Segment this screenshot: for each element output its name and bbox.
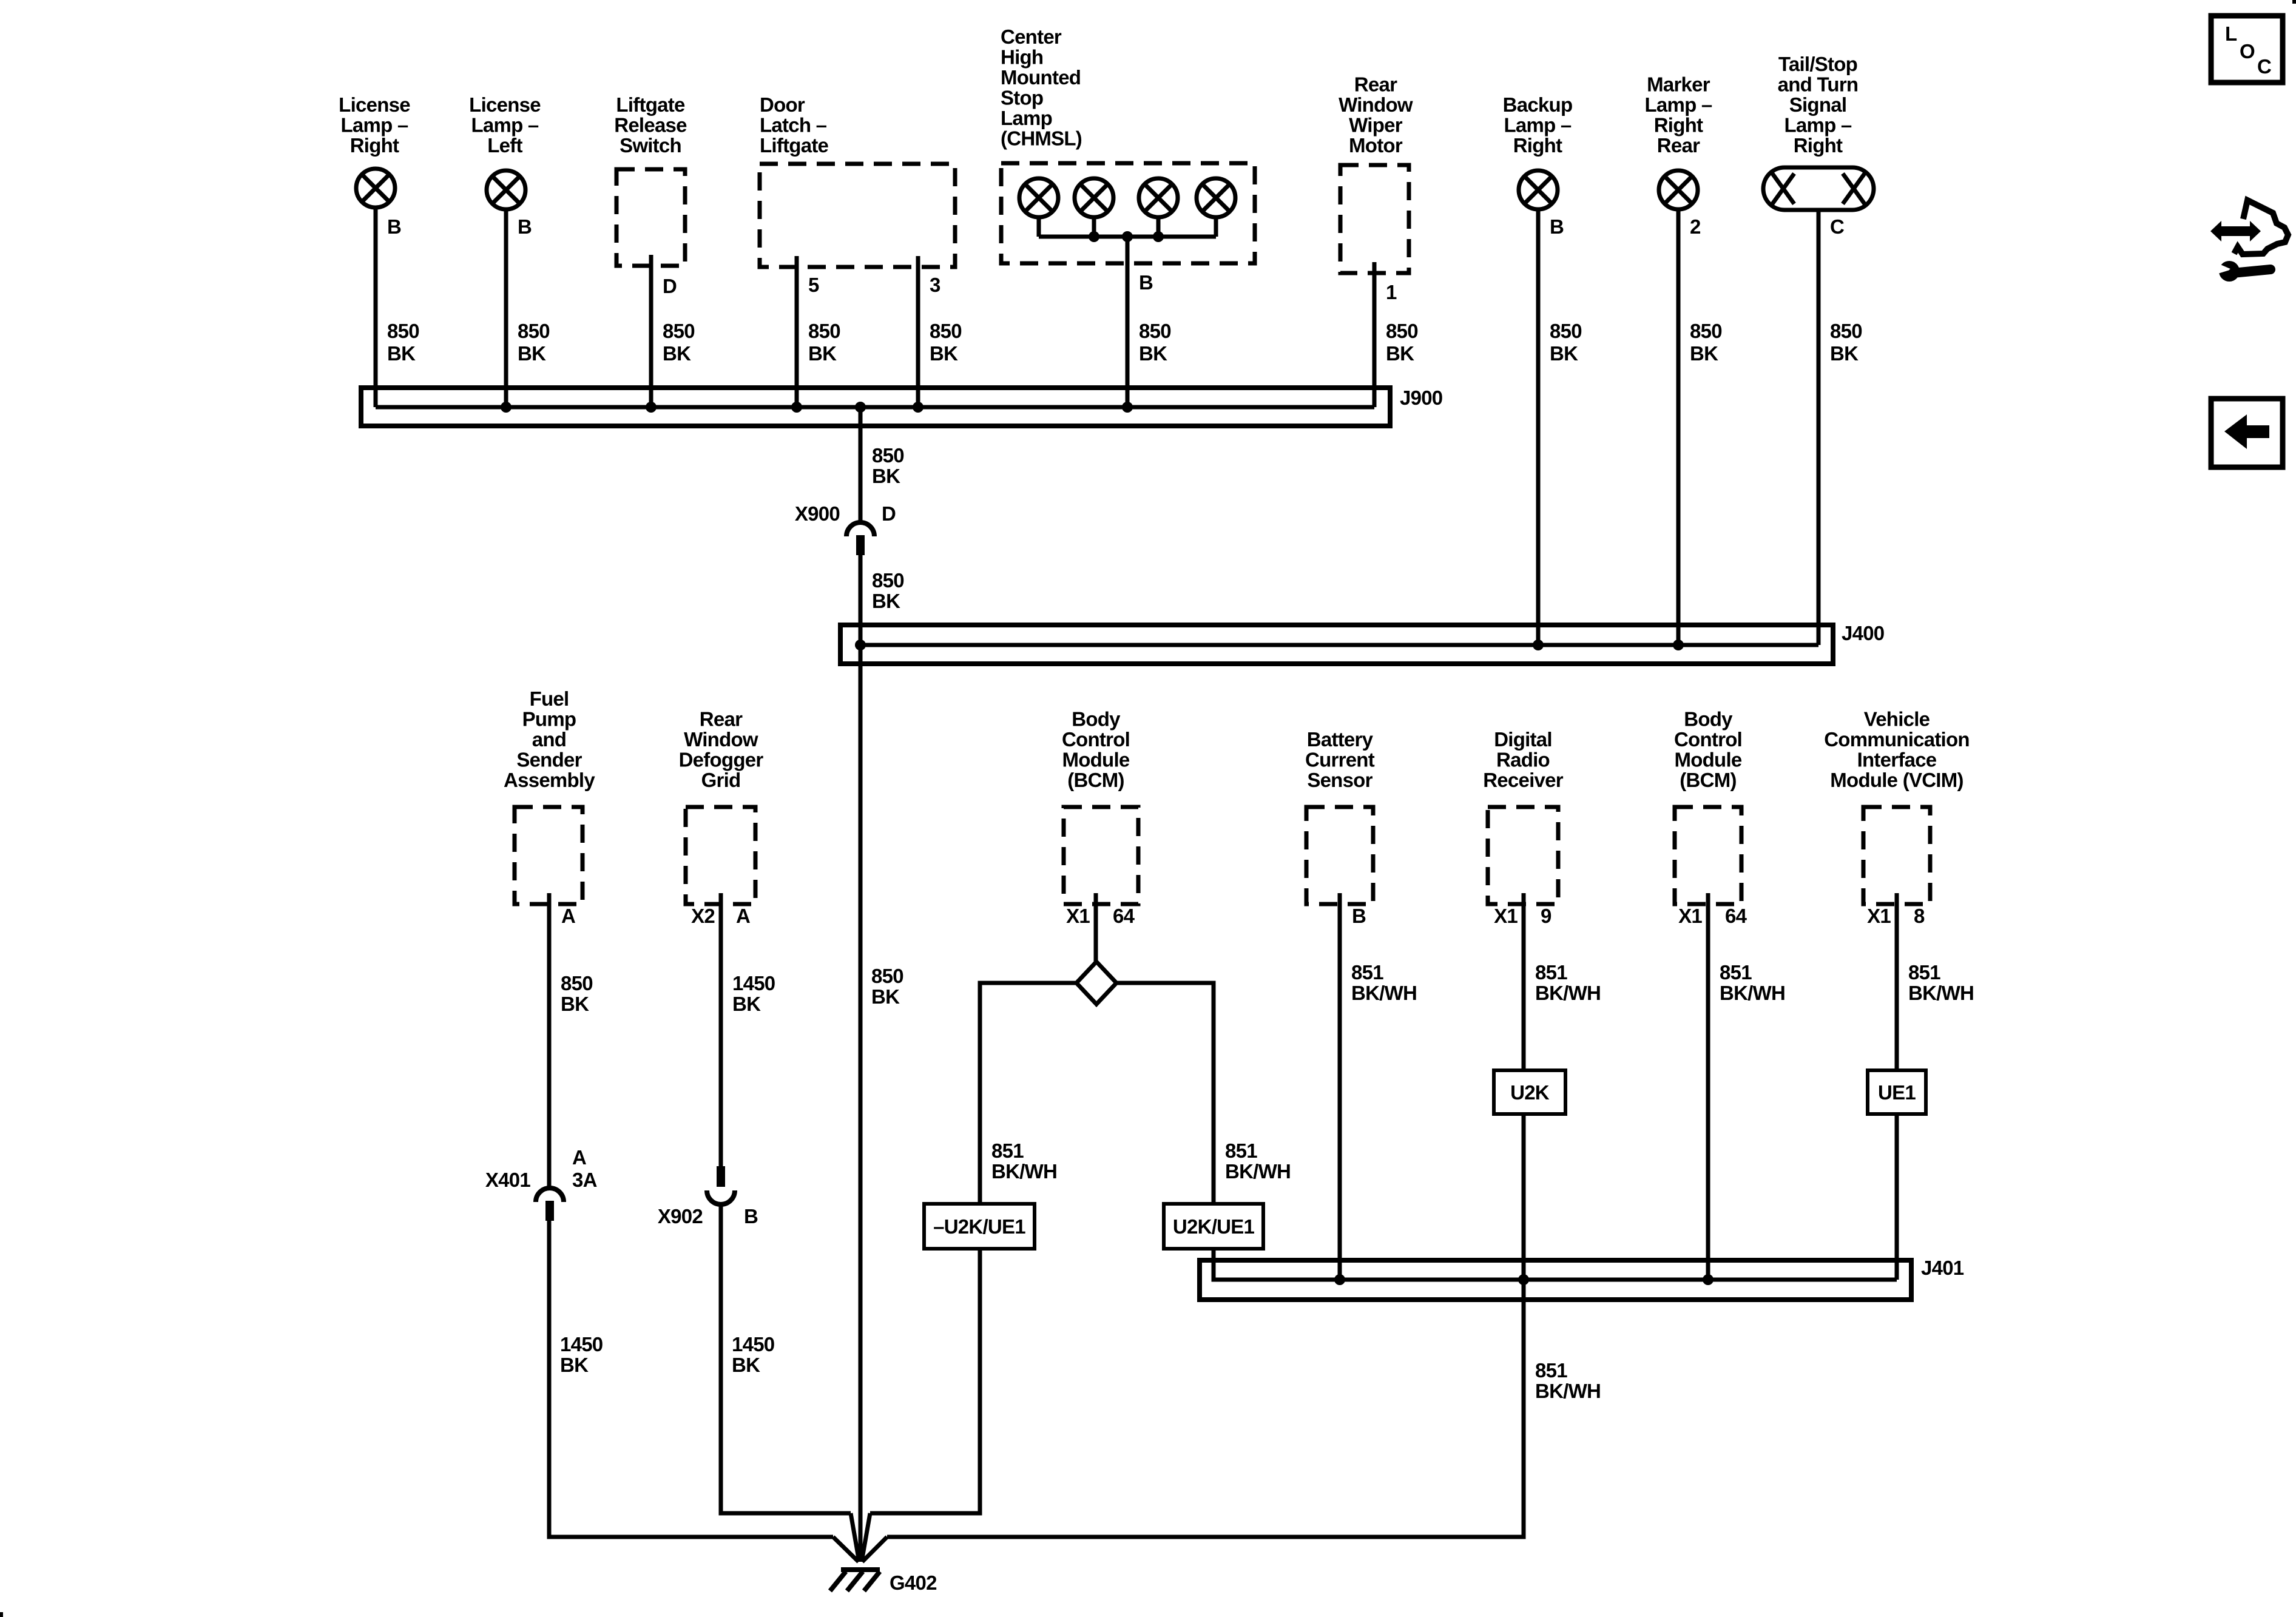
icon LOC box <box>2211 16 2283 83</box>
wire 1450 BK Defogger to X902 <box>719 893 723 1166</box>
wire CHMSL bulb 4 drop <box>1214 219 1218 237</box>
svg-text:BK/WH: BK/WH <box>1351 982 1417 1004</box>
icon back-arrow box <box>2211 399 2283 467</box>
lamp CHMSL bulb 4 <box>1197 178 1235 217</box>
junction on J900 at License Lamp Left <box>501 402 512 413</box>
svg-text:850: 850 <box>1386 320 1418 342</box>
wire 850 BK Wiper Motor to J900 <box>1373 262 1377 407</box>
wire 850 BK J900 to X900 <box>859 407 863 523</box>
wire CHMSL bulb 3 drop <box>1156 219 1161 237</box>
svg-text:Receiver: Receiver <box>1483 769 1564 791</box>
lamp License Lamp - Left <box>487 170 525 209</box>
svg-text:Latch –: Latch – <box>760 114 827 137</box>
junction on J401 at Battery Current Sensor <box>1334 1274 1345 1285</box>
connector X900 pin half <box>856 535 865 555</box>
svg-text:B: B <box>1139 271 1153 294</box>
wire -U2K/UE1 to ground run <box>870 1249 980 1513</box>
svg-text:850: 850 <box>872 444 904 467</box>
svg-text:Right: Right <box>1654 114 1703 137</box>
svg-text:Motor: Motor <box>1349 134 1403 157</box>
splice diamond <box>1076 962 1116 1004</box>
junction on J900 at CHMSL <box>1122 402 1133 413</box>
svg-text:B: B <box>1352 905 1366 927</box>
lamp License Lamp - Right <box>356 169 395 208</box>
module BCM right (dashed box) <box>1675 807 1741 904</box>
svg-text:X1: X1 <box>1494 905 1518 927</box>
junction on J900 at Door Latch pin 3 <box>913 402 923 413</box>
junction CHMSL bus left <box>1089 231 1099 242</box>
svg-text:851: 851 <box>1351 961 1383 984</box>
svg-text:Lamp –: Lamp – <box>1504 114 1571 137</box>
svg-text:Control: Control <box>1674 728 1742 751</box>
wire 850 BK Backup Lamp to J400 <box>1536 211 1541 645</box>
lamp CHMSL bulb 2 <box>1075 178 1113 217</box>
svg-text:BK: BK <box>560 1354 589 1376</box>
svg-text:Body: Body <box>1684 708 1733 731</box>
lamp Tail/Stop and Turn Signal Lamp - Right (dual filament) <box>1763 167 1874 210</box>
svg-text:D: D <box>882 502 896 525</box>
page corner mark top right <box>2292 0 2296 4</box>
svg-text:Lamp –: Lamp – <box>1644 93 1712 116</box>
svg-text:BK: BK <box>1690 342 1718 365</box>
wire CHMSL bulb 1 drop <box>1037 219 1041 237</box>
svg-text:B: B <box>518 215 532 238</box>
wire 850 BK License Lamp Right to J900 <box>374 209 378 407</box>
connector X902 pin half <box>717 1166 725 1187</box>
wire 850 BK J400 to ground <box>859 645 863 1562</box>
svg-text:L: L <box>2225 22 2237 45</box>
lamp Backup Lamp - Right <box>1519 170 1558 209</box>
svg-text:BK: BK <box>1550 342 1578 365</box>
svg-text:Defogger: Defogger <box>679 749 764 771</box>
svg-text:B: B <box>744 1205 758 1227</box>
svg-text:8: 8 <box>1914 905 1925 927</box>
switch Liftgate Release Switch (dashed box) <box>616 169 685 266</box>
svg-text:License: License <box>469 93 541 116</box>
connector X401 pin half <box>545 1201 554 1221</box>
svg-text:A: A <box>561 905 575 927</box>
svg-text:5: 5 <box>808 274 819 296</box>
svg-text:851: 851 <box>991 1139 1024 1162</box>
svg-text:A: A <box>736 905 750 927</box>
svg-text:–U2K/UE1: –U2K/UE1 <box>933 1215 1025 1238</box>
svg-text:Marker: Marker <box>1647 73 1710 96</box>
svg-text:BK: BK <box>930 342 958 365</box>
svg-text:(BCM): (BCM) <box>1680 769 1736 791</box>
svg-text:Window: Window <box>684 728 758 751</box>
svg-text:851: 851 <box>1720 961 1752 984</box>
junction on J900 at Liftgate Release Switch <box>646 402 657 413</box>
svg-text:Lamp –: Lamp – <box>1784 114 1851 137</box>
wire CHMSL bulb 2 drop <box>1092 219 1096 237</box>
svg-text:1450: 1450 <box>732 972 775 994</box>
svg-text:B: B <box>387 215 401 238</box>
junction on J401 at BCM right <box>1703 1274 1714 1285</box>
wire J400 internal bus <box>860 643 1818 647</box>
svg-text:BK: BK <box>732 993 761 1015</box>
svg-text:BK: BK <box>1830 342 1859 365</box>
svg-text:Wiper: Wiper <box>1349 114 1403 137</box>
svg-text:X902: X902 <box>658 1205 703 1227</box>
svg-text:1450: 1450 <box>732 1333 774 1355</box>
svg-text:Module: Module <box>1062 749 1130 771</box>
svg-text:Liftgate: Liftgate <box>616 93 685 116</box>
wire 851 BK/WH diamond right branch <box>1116 983 1214 1204</box>
svg-text:851: 851 <box>1535 1359 1567 1382</box>
svg-text:850: 850 <box>518 320 550 342</box>
svg-text:850: 850 <box>387 320 419 342</box>
wire diagonal fuel pump into ground point <box>833 1537 859 1562</box>
splice pack J400 <box>840 625 1833 664</box>
module BCM left (dashed box) <box>1064 807 1138 904</box>
svg-text:UE1: UE1 <box>1878 1081 1916 1104</box>
lamp CHMSL bulb 3 <box>1139 178 1178 217</box>
svg-text:BK: BK <box>663 342 691 365</box>
svg-text:Door: Door <box>760 93 805 116</box>
wire 851 BK/WH Digital Radio Receiver to U2K <box>1522 893 1526 1070</box>
svg-text:64: 64 <box>1113 905 1135 927</box>
svg-text:Left: Left <box>487 134 522 157</box>
junction CHMSL bus middle <box>1122 231 1133 242</box>
svg-text:Lamp –: Lamp – <box>340 114 408 137</box>
wire 851 BK/WH U2K to J401 <box>1522 1114 1526 1280</box>
wire J401 internal bus <box>1214 1278 1897 1282</box>
module VCIM (dashed box) <box>1863 807 1930 904</box>
svg-text:Lamp –: Lamp – <box>471 114 538 137</box>
svg-text:O: O <box>2240 40 2255 62</box>
svg-text:Pump: Pump <box>522 708 576 731</box>
wire 850 BK Tail/Stop Lamp to J400 <box>1817 210 1821 645</box>
svg-text:Sender: Sender <box>516 749 582 771</box>
connector X401 socket half <box>536 1188 564 1202</box>
junction on J900 at Door Latch pin 5 <box>791 402 802 413</box>
svg-text:A: A <box>572 1146 586 1169</box>
svg-text:Right: Right <box>1513 134 1562 157</box>
svg-text:851: 851 <box>1908 961 1940 984</box>
svg-text:Module (VCIM): Module (VCIM) <box>1830 769 1963 791</box>
svg-text:BK/WH: BK/WH <box>1225 1160 1291 1183</box>
svg-text:X1: X1 <box>1678 905 1702 927</box>
svg-text:Right: Right <box>1794 134 1843 157</box>
svg-text:Body: Body <box>1072 708 1121 731</box>
svg-text:BK: BK <box>808 342 837 365</box>
wire diagonal J401 output into ground point <box>862 1537 887 1562</box>
svg-text:64: 64 <box>1725 905 1747 927</box>
svg-text:BK: BK <box>387 342 416 365</box>
motor Rear Window Wiper Motor (dashed box) <box>1340 165 1409 273</box>
svg-text:Grid: Grid <box>701 769 741 791</box>
wire 850 BK Liftgate Release Switch to J900 <box>649 255 653 407</box>
svg-text:J900: J900 <box>1400 387 1442 409</box>
junction on J400 at Marker Lamp <box>1673 640 1684 650</box>
svg-text:Release: Release <box>614 114 687 137</box>
svg-text:and Turn: and Turn <box>1778 73 1859 96</box>
svg-text:BK: BK <box>871 985 900 1008</box>
wire 851 BK/WH Battery Current Sensor to J401 <box>1338 893 1342 1280</box>
svg-text:X1: X1 <box>1066 905 1090 927</box>
svg-text:1: 1 <box>1386 281 1397 303</box>
svg-text:Battery: Battery <box>1307 728 1374 751</box>
svg-text:BK: BK <box>732 1354 760 1376</box>
wire diagonal -U2K/UE1 into ground point <box>862 1513 870 1562</box>
svg-text:9: 9 <box>1541 905 1551 927</box>
wire CHMSL internal bus <box>1039 235 1216 239</box>
svg-text:X1: X1 <box>1867 905 1891 927</box>
junction on J400 at ground feed <box>855 640 866 650</box>
svg-text:2: 2 <box>1690 215 1701 238</box>
svg-text:Rear: Rear <box>700 708 743 731</box>
svg-text:X2: X2 <box>691 905 715 927</box>
junction on J400 at Backup Lamp <box>1533 640 1544 650</box>
svg-text:X401: X401 <box>485 1169 530 1191</box>
svg-text:BK/WH: BK/WH <box>1535 982 1601 1004</box>
option label UE1 <box>1868 1070 1926 1114</box>
svg-text:850: 850 <box>1550 320 1582 342</box>
junction CHMSL bus right <box>1153 231 1164 242</box>
svg-text:B: B <box>1550 215 1564 238</box>
wire 850 BK Marker Lamp to J400 <box>1676 211 1681 645</box>
wire 851 BK/WH BCM right to J401 <box>1706 893 1710 1280</box>
svg-text:Radio: Radio <box>1496 749 1550 771</box>
svg-text:Rear: Rear <box>1657 134 1700 157</box>
wire 850 BK License Lamp Left to J900 <box>504 211 508 407</box>
wire 851 BK/WH BCM to splice diamond <box>1094 893 1098 964</box>
svg-text:851: 851 <box>1535 961 1567 984</box>
svg-text:Signal: Signal <box>1789 93 1847 116</box>
fuel pump assembly (dashed box) <box>515 807 582 904</box>
svg-text:BK: BK <box>561 993 589 1015</box>
svg-text:Fuel: Fuel <box>530 687 569 710</box>
svg-text:850: 850 <box>561 972 593 994</box>
connector X902 socket half <box>707 1190 735 1204</box>
ground G402 symbol <box>841 1567 880 1572</box>
svg-text:Current: Current <box>1305 749 1375 771</box>
option label U2K <box>1494 1070 1565 1114</box>
svg-text:BK: BK <box>872 590 900 612</box>
svg-text:U2K/UE1: U2K/UE1 <box>1173 1215 1255 1238</box>
svg-text:U2K: U2K <box>1510 1081 1550 1104</box>
wire 851 BK/WH diamond left branch <box>980 983 1076 1204</box>
wire 850 BK X900 to J400 <box>859 555 863 645</box>
junction on J401 at ground output <box>1518 1274 1529 1285</box>
wire J900 internal bus <box>376 405 1374 410</box>
svg-text:850: 850 <box>663 320 695 342</box>
wire 850 BK Door Latch pin 5 to J900 <box>795 256 799 407</box>
svg-text:(CHMSL): (CHMSL) <box>1001 127 1082 150</box>
lamp assembly CHMSL (dashed box) <box>1001 163 1255 263</box>
svg-text:BK/WH: BK/WH <box>1908 982 1974 1004</box>
svg-text:Rear: Rear <box>1354 73 1397 96</box>
svg-text:850: 850 <box>1830 320 1862 342</box>
svg-text:C: C <box>1830 215 1844 238</box>
svg-text:D: D <box>663 275 677 297</box>
svg-text:850: 850 <box>1139 320 1171 342</box>
svg-text:License: License <box>339 93 410 116</box>
wire 851 BK/WH UE1 to J401 <box>1895 1114 1899 1280</box>
wire U2K/UE1 to J401 <box>1214 1249 1217 1280</box>
page corner mark bottom left <box>0 1612 3 1617</box>
wire 850 BK CHMSL to J900 <box>1126 237 1130 407</box>
svg-text:Tail/Stop: Tail/Stop <box>1778 53 1857 75</box>
junction on J900 at output to X900 <box>855 402 866 413</box>
svg-text:BK: BK <box>1139 342 1167 365</box>
svg-text:Window: Window <box>1339 93 1413 116</box>
svg-text:BK/WH: BK/WH <box>1535 1380 1601 1402</box>
splice pack J900 <box>361 388 1390 426</box>
receiver Digital Radio Receiver (dashed box) <box>1488 807 1558 904</box>
svg-text:Control: Control <box>1062 728 1130 751</box>
sensor Battery Current Sensor (dashed box) <box>1306 807 1373 904</box>
svg-text:Stop: Stop <box>1001 87 1043 109</box>
DTC label -U2K/UE1 <box>924 1204 1035 1249</box>
wire 851 BK/WH J401 to ground run <box>887 1280 1524 1537</box>
svg-text:G402: G402 <box>890 1571 937 1594</box>
svg-text:Digital: Digital <box>1494 728 1552 751</box>
wire 1450 BK X401 to ground run <box>549 1221 833 1537</box>
svg-text:850: 850 <box>872 569 904 592</box>
svg-text:850: 850 <box>930 320 962 342</box>
svg-text:Liftgate: Liftgate <box>760 134 829 157</box>
wire diagonal defogger into ground point <box>851 1513 859 1562</box>
svg-text:BK: BK <box>872 465 900 487</box>
connector X900 socket half <box>846 522 874 536</box>
svg-text:Assembly: Assembly <box>504 769 595 791</box>
svg-text:Sensor: Sensor <box>1307 769 1373 791</box>
svg-text:(BCM): (BCM) <box>1067 769 1124 791</box>
svg-text:and: and <box>532 728 566 751</box>
svg-text:BK: BK <box>518 342 546 365</box>
svg-text:J400: J400 <box>1842 622 1884 644</box>
svg-text:850: 850 <box>808 320 840 342</box>
svg-text:Vehicle: Vehicle <box>1864 708 1930 731</box>
lamp CHMSL bulb 1 <box>1019 178 1058 217</box>
svg-text:Module: Module <box>1675 749 1742 771</box>
svg-text:C: C <box>2257 55 2271 78</box>
wire 1450 BK X902 to ground run <box>721 1204 851 1513</box>
svg-text:BK/WH: BK/WH <box>1720 982 1785 1004</box>
svg-text:3A: 3A <box>572 1169 597 1191</box>
svg-text:J401: J401 <box>1921 1257 1964 1279</box>
svg-text:BK: BK <box>1386 342 1414 365</box>
defogger grid (dashed box) <box>686 807 755 904</box>
svg-text:Communication: Communication <box>1824 728 1970 751</box>
svg-text:1450: 1450 <box>560 1333 603 1355</box>
svg-text:X900: X900 <box>795 502 840 525</box>
svg-text:850: 850 <box>871 965 903 987</box>
icon vehicle body repair (car outline, double arrow, wrench) <box>2234 200 2288 254</box>
wire 851 BK/WH VCIM to UE1 <box>1895 893 1899 1070</box>
svg-text:850: 850 <box>1690 320 1722 342</box>
svg-text:Center: Center <box>1001 25 1062 48</box>
svg-text:Right: Right <box>350 134 399 157</box>
lamp Marker Lamp - Right Rear <box>1659 170 1698 209</box>
svg-text:Interface: Interface <box>1857 749 1937 771</box>
svg-text:Backup: Backup <box>1503 93 1573 116</box>
wire 850 BK Fuel Pump to X401 <box>547 893 552 1188</box>
svg-text:Switch: Switch <box>620 134 681 157</box>
wire 850 BK Door Latch pin 3 to J900 <box>916 256 920 407</box>
latch Door Latch - Liftgate (dashed box) <box>760 164 955 267</box>
svg-text:Mounted: Mounted <box>1001 66 1081 89</box>
svg-text:High: High <box>1001 46 1043 69</box>
svg-text:Lamp: Lamp <box>1001 107 1052 129</box>
svg-text:851: 851 <box>1225 1139 1257 1162</box>
DTC label U2K/UE1 <box>1164 1204 1263 1249</box>
svg-text:BK/WH: BK/WH <box>991 1160 1057 1183</box>
splice pack J401 <box>1200 1260 1911 1300</box>
svg-text:3: 3 <box>930 274 940 296</box>
